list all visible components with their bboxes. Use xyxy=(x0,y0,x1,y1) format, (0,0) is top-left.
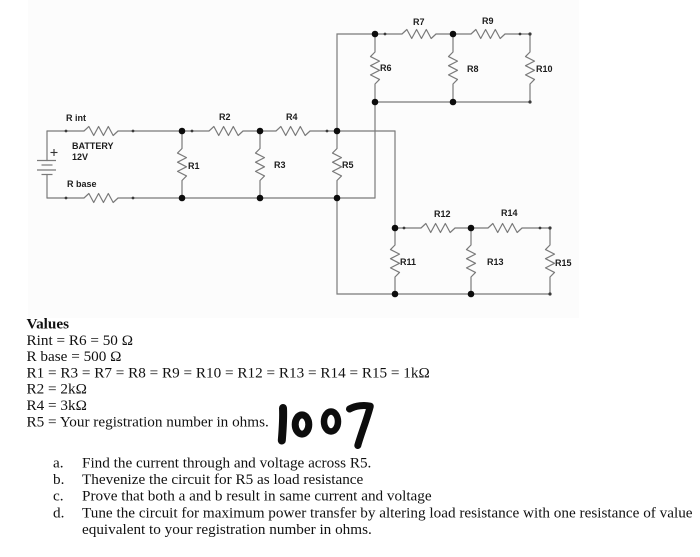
svg-text:R4: R4 xyxy=(286,112,298,122)
resistor R9 xyxy=(471,30,505,39)
svg-text:R base: R base xyxy=(67,179,97,189)
corner dot R10 top xyxy=(528,32,531,35)
node R8 bottom xyxy=(450,99,457,106)
wire bottom rail battery to Rbase xyxy=(47,197,84,199)
svg-text:12V: 12V xyxy=(72,152,88,162)
node R1 bottom xyxy=(179,195,186,202)
resistor R6 xyxy=(371,34,380,102)
resistor R15 xyxy=(546,228,555,294)
pin dot battery top xyxy=(65,130,68,133)
corner dot R15 top xyxy=(548,226,551,229)
svg-text:R11: R11 xyxy=(400,257,416,267)
svg-text:R5: R5 xyxy=(342,160,354,170)
node R11 top xyxy=(392,225,399,232)
wire bottom rail Rbase to R6 drop xyxy=(118,197,375,199)
svg-text:Prove that both a and b result: Prove that both a and b result in same c… xyxy=(82,488,432,505)
wire upper bottom rail xyxy=(375,101,530,103)
node R13 top xyxy=(468,225,475,232)
wire top rail battery to Rint xyxy=(47,130,84,132)
pin dot battery bottom xyxy=(65,197,68,200)
svg-text:R2 = 2kΩ: R2 = 2kΩ xyxy=(27,381,87,398)
svg-text:R1 = R3 = R7 = R8 = R9 = R10 =: R1 = R3 = R7 = R8 = R9 = R10 = R12 = R13… xyxy=(27,364,430,381)
handwritten digit 0 second xyxy=(324,412,338,432)
svg-text:d.: d. xyxy=(53,504,64,521)
corner dot R15 bottom xyxy=(548,292,551,295)
pin dot R4 right xyxy=(326,130,329,133)
resistor R2 xyxy=(209,127,243,136)
svg-text:Rint = R6 = 50 Ω: Rint = R6 = 50 Ω xyxy=(27,332,133,349)
resistor R5 xyxy=(333,131,342,198)
wire battery negative lead xyxy=(46,175,48,199)
pin dot Rint right xyxy=(132,130,135,133)
svg-text:R12: R12 xyxy=(434,209,451,219)
svg-text:R13: R13 xyxy=(487,257,504,267)
wire lower rail R12 to R13 xyxy=(455,227,471,229)
node R1 top xyxy=(179,128,186,135)
svg-text:Values: Values xyxy=(27,316,70,333)
resistor Rbase xyxy=(84,194,118,203)
wire top rail R4 to elbow xyxy=(310,130,395,132)
svg-text:BATTERY: BATTERY xyxy=(72,141,114,151)
handwritten digit 7 xyxy=(350,406,371,446)
node R11 bottom xyxy=(392,291,399,298)
svg-text:Find the current through and v: Find the current through and voltage acr… xyxy=(82,455,371,472)
wire lower rail R14 to corner xyxy=(522,227,550,229)
node R13 bottom xyxy=(468,291,475,298)
resistor R11 xyxy=(391,228,400,294)
svg-text:R7: R7 xyxy=(413,17,425,27)
svg-text:R9: R9 xyxy=(482,16,494,26)
svg-text:equivalent to your registratio: equivalent to your registration number i… xyxy=(82,521,372,538)
resistor R8 xyxy=(449,34,458,102)
svg-text:R15: R15 xyxy=(555,258,572,268)
wire upper rail R7 to R8 xyxy=(436,33,453,35)
pin dot R14 right xyxy=(539,227,542,230)
wire upper rail R9 to corner xyxy=(505,33,530,35)
node R5 top xyxy=(334,128,341,135)
wire top rail Rint to R2 xyxy=(118,130,209,132)
svg-text:R14: R14 xyxy=(501,208,518,218)
wire R6 bottom down to bottom rail xyxy=(374,102,376,198)
node R6 top xyxy=(372,31,379,38)
wire lower rail R13 to R14 xyxy=(471,227,488,229)
resistor R14 xyxy=(488,224,522,233)
wire lower bottom rail xyxy=(395,293,550,295)
pin dot R9 right xyxy=(519,33,522,36)
svg-text:R10: R10 xyxy=(536,64,553,74)
resistor R4 xyxy=(276,127,310,136)
handwritten digit 0 first xyxy=(295,415,309,434)
wire upper rail R6 to R7 xyxy=(375,33,402,35)
svg-text:R8: R8 xyxy=(467,64,479,74)
resistor R1 xyxy=(178,131,187,198)
svg-text:a.: a. xyxy=(53,455,64,472)
wire elbow down to lower network xyxy=(394,131,396,228)
wire battery positive lead xyxy=(46,131,48,161)
resistor R3 xyxy=(256,131,265,198)
wire bottom rail down to lower network xyxy=(337,198,395,294)
resistor Rint xyxy=(84,127,118,136)
svg-text:R4 = 3kΩ: R4 = 3kΩ xyxy=(27,397,87,414)
node R3 bottom xyxy=(257,195,264,202)
resistor R7 xyxy=(402,30,436,39)
svg-text:c.: c. xyxy=(53,488,64,505)
pin dot R12 left xyxy=(403,227,406,230)
battery plus sign xyxy=(51,149,58,156)
svg-text:R base = 500 Ω: R base = 500 Ω xyxy=(27,348,122,365)
svg-text:b.: b. xyxy=(53,471,64,488)
pin dot R2 left xyxy=(191,130,194,133)
wire top rail R2 to R4 xyxy=(243,130,276,132)
svg-text:R int: R int xyxy=(66,113,86,123)
node R5 bottom xyxy=(334,195,341,202)
svg-text:Thevenize the circuit for R5 a: Thevenize the circuit for R5 as load res… xyxy=(82,471,364,488)
resistor R13 xyxy=(467,228,476,294)
node R3 top xyxy=(257,128,264,135)
svg-text:R5 = Your registration number: R5 = Your registration number in ohms. xyxy=(27,413,269,430)
pin dot R7 left xyxy=(384,33,387,36)
battery BT1 xyxy=(37,161,56,175)
resistor R10 xyxy=(526,34,535,102)
wire upper rail R8 to R9 xyxy=(453,33,471,35)
svg-text:R6: R6 xyxy=(380,63,392,73)
svg-text:R1: R1 xyxy=(188,161,200,171)
svg-text:Tune the circuit for maximum p: Tune the circuit for maximum power trans… xyxy=(82,504,693,521)
node R8 top xyxy=(450,31,457,38)
wire R5 node up to upper network xyxy=(337,34,375,131)
node R6 bottom xyxy=(372,99,379,106)
pin dot Rbase right xyxy=(132,197,135,200)
resistor R12 xyxy=(421,224,455,233)
svg-text:R3: R3 xyxy=(274,160,286,170)
wire lower rail node to R12 xyxy=(395,227,421,229)
handwritten digit 1 xyxy=(282,408,283,441)
corner dot R10 bottom xyxy=(528,100,531,103)
svg-text:R2: R2 xyxy=(219,112,231,122)
